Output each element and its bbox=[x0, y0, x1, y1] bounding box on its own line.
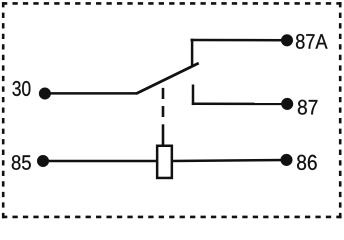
wire: contact 87A to terminal 87A bbox=[191, 39, 288, 42]
wire: coil to terminal 86 bbox=[172, 160, 287, 161]
terminal 85 bbox=[37, 155, 49, 167]
terminal 87A bbox=[281, 34, 293, 46]
pin label 30 bbox=[13, 81, 31, 96]
relay coil bbox=[157, 146, 172, 178]
pin label 87A bbox=[296, 34, 328, 49]
pin label 85 bbox=[12, 155, 31, 170]
terminal 86 bbox=[281, 154, 293, 166]
pin label 87 bbox=[298, 100, 318, 115]
switch arm (common contact, resting on 87A) bbox=[136, 63, 199, 94]
contact stub 87 (vertical) bbox=[192, 85, 195, 106]
terminal 87 bbox=[281, 98, 293, 110]
contact stub 87A (vertical) bbox=[191, 39, 194, 66]
wire: contact 87 to terminal 87 bbox=[192, 103, 287, 106]
wire: terminal 30 to switch pivot bbox=[45, 92, 137, 95]
pin label 86 bbox=[297, 155, 317, 170]
armature linkage (dashed mechanical link) bbox=[162, 88, 165, 146]
wire: terminal 85 to coil bbox=[43, 160, 157, 163]
terminal 30 bbox=[39, 88, 51, 100]
